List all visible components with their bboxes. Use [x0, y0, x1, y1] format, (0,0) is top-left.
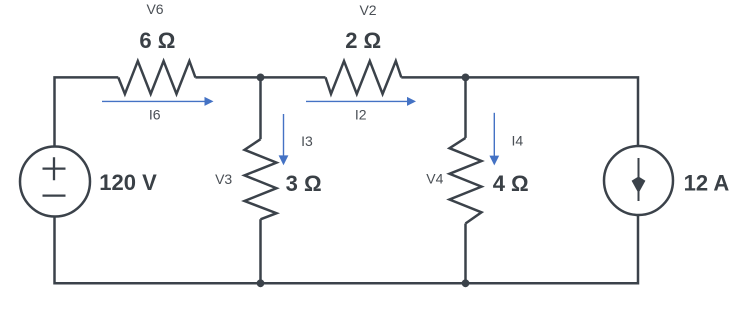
svg-text:I6: I6	[149, 107, 161, 123]
node B junction dot	[462, 74, 470, 82]
svg-text:6 Ω: 6 Ω	[139, 28, 175, 53]
node C junction dot	[257, 279, 265, 287]
node A junction dot	[257, 74, 265, 82]
svg-text:I4: I4	[512, 133, 524, 149]
resistor 6 ohm (V6)	[118, 61, 195, 94]
wire from voltage source up and right to R6	[55, 77, 119, 146]
wire R4 to bottom node D	[464, 224, 467, 284]
current arrow I3	[279, 114, 289, 165]
wire from current source down, along bottom, up to voltage source	[55, 215, 639, 283]
current source U1 circle (12 A)	[604, 146, 673, 215]
wire R2 through node B to top-right corner, down to current source	[401, 77, 638, 146]
current arrow I6	[102, 97, 214, 106]
node D junction dot	[462, 279, 470, 287]
svg-text:V4: V4	[426, 171, 443, 187]
svg-text:4 Ω: 4 Ω	[493, 171, 529, 196]
svg-text:V6: V6	[146, 1, 163, 17]
voltage source plus sign	[43, 157, 66, 180]
svg-text:120 V: 120 V	[99, 170, 157, 195]
current source arrowhead	[632, 177, 646, 194]
resistor 3 ohm (V3)	[245, 139, 277, 219]
current source arrow shaft	[638, 158, 640, 201]
svg-text:2 Ω: 2 Ω	[345, 28, 381, 53]
voltage source minus sign	[43, 194, 66, 196]
wire R6 to node A to R2	[195, 76, 325, 79]
svg-text:I3: I3	[301, 133, 313, 149]
resistor 2 ohm (V2)	[326, 61, 402, 94]
wire node B down to R4	[464, 77, 467, 137]
svg-text:3 Ω: 3 Ω	[286, 171, 322, 196]
voltage source V1 circle (120 V)	[20, 147, 90, 217]
wire R3 to bottom node C	[259, 219, 262, 283]
resistor 4 ohm (V4)	[450, 138, 482, 224]
current arrow I2	[306, 97, 416, 106]
svg-text:V3: V3	[215, 171, 232, 187]
svg-text:V2: V2	[359, 2, 376, 18]
wire node A down to R3	[259, 77, 262, 139]
svg-text:12 A: 12 A	[684, 170, 730, 195]
current arrow I4	[489, 113, 499, 166]
svg-text:I2: I2	[355, 107, 367, 123]
